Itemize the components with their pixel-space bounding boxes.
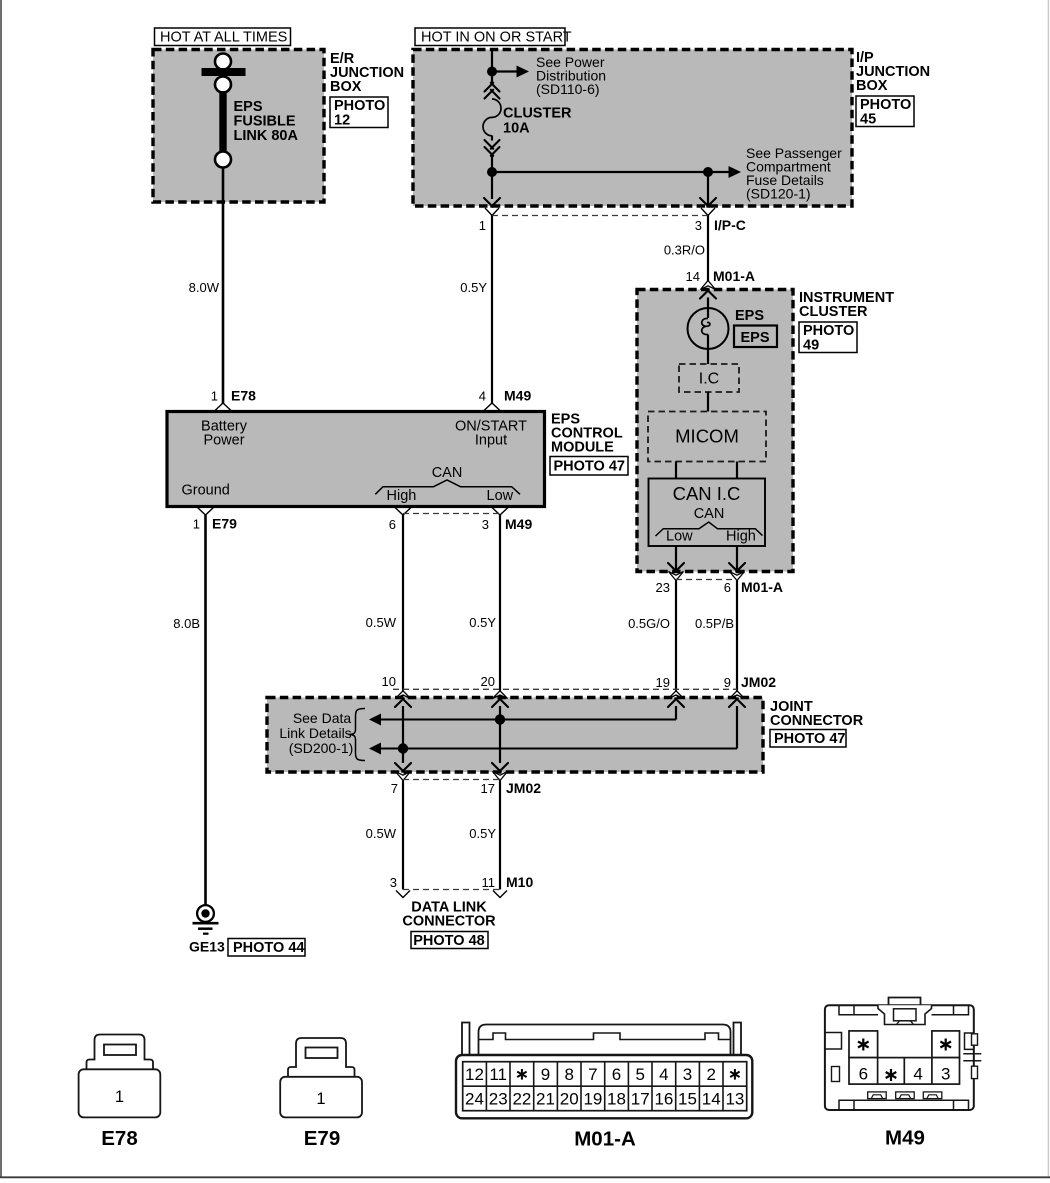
connector M01-A pin 14 [686, 268, 755, 284]
svg-text:BOX: BOX [330, 79, 362, 95]
svg-text:HOT IN ON OR START: HOT IN ON OR START [421, 30, 572, 46]
wire I.C to MICOM [707, 392, 709, 412]
wire through joint connector (pin20 to pin17) [499, 706, 501, 763]
EPS control module title [551, 412, 623, 456]
connector face E79 [280, 1038, 362, 1150]
svg-text:3: 3 [482, 517, 489, 532]
connector M10 pin 3 [390, 875, 410, 898]
page left border [0, 0, 2, 1177]
node power distribution tap [487, 67, 497, 77]
connector M10 dashed line [403, 889, 500, 891]
svg-text:17: 17 [631, 1090, 650, 1109]
svg-text:4: 4 [913, 1065, 922, 1084]
EPS control module box [167, 412, 545, 507]
node bus right [703, 167, 713, 177]
wire MICOM to CAN I.C right [736, 462, 738, 479]
data link connector title [402, 900, 496, 930]
svg-text:19: 19 [583, 1090, 602, 1109]
photo label PHOTO 12 [330, 97, 388, 129]
connector face M49 [825, 998, 981, 1150]
svg-text:23: 23 [656, 580, 670, 595]
svg-text:49: 49 [803, 338, 819, 354]
connector E79 pin 1 exit [193, 507, 237, 532]
node CAN low junction [495, 714, 505, 724]
JM02 pin 19 entry symbol [668, 691, 684, 707]
svg-text:M49: M49 [504, 388, 531, 404]
svg-text:0.5Y: 0.5Y [469, 826, 496, 841]
svg-text:M01-A: M01-A [574, 1128, 636, 1151]
svg-text:1: 1 [115, 1088, 124, 1106]
photo label PHOTO 47 joint [770, 730, 846, 748]
label HOT IN ON OR START [415, 28, 572, 46]
photo label PHOTO 44 [228, 939, 305, 957]
svg-text:21: 21 [536, 1090, 555, 1109]
svg-text:M01-A: M01-A [741, 579, 783, 595]
I/P junction box [413, 50, 852, 207]
svg-text:(SD110-6): (SD110-6) [536, 81, 600, 97]
wire 8.0W battery feed [189, 168, 223, 404]
svg-text:CAN: CAN [432, 465, 463, 481]
label HOT AT ALL TIMES [155, 28, 291, 46]
wire 0.3R/O [664, 216, 708, 282]
connector JM02 pin 19 [656, 675, 670, 690]
svg-text:8: 8 [564, 1065, 573, 1084]
svg-text:EPS: EPS [735, 308, 764, 324]
svg-text:10A: 10A [503, 121, 530, 137]
wire 0.5G/O [628, 581, 676, 691]
connector M01-A pin 23 [656, 563, 684, 595]
wire CAN I.C low out [675, 546, 677, 572]
wire 8.0B ground [173, 515, 205, 906]
svg-text:Input: Input [475, 433, 507, 449]
svg-text:CONNECTOR: CONNECTOR [770, 713, 864, 729]
connector I/P-C dashed line [492, 215, 708, 217]
svg-text:JM02: JM02 [741, 674, 776, 690]
svg-text:1: 1 [479, 218, 486, 233]
connector M01-A dashed line [676, 579, 737, 581]
svg-text:22: 22 [512, 1090, 531, 1109]
svg-text:18: 18 [607, 1090, 626, 1109]
page right border [1047, 0, 1049, 1177]
JM02 pin 7 exit symbol [391, 763, 411, 796]
svg-text:1: 1 [316, 1090, 325, 1108]
data link bus lower [369, 743, 737, 755]
svg-text:14: 14 [686, 269, 700, 284]
svg-text:CLUSTER: CLUSTER [503, 106, 572, 122]
svg-text:Low: Low [666, 529, 693, 545]
instrument cluster title [799, 290, 894, 320]
svg-text:Power: Power [203, 433, 244, 449]
connector JM02 pin 10 [382, 674, 396, 689]
wire to warning lamp [707, 298, 709, 319]
svg-text:0.5Y: 0.5Y [460, 280, 487, 295]
svg-text:11: 11 [482, 875, 496, 890]
module label ON/START Input [455, 419, 527, 449]
svg-text:13: 13 [725, 1090, 744, 1109]
connector M01-A pin 6 [724, 563, 783, 595]
photo label PHOTO 47 [550, 457, 628, 476]
module label Battery Power [201, 419, 248, 449]
JM02 pin 9 entry symbol [729, 691, 745, 707]
E/R junction box [153, 50, 324, 203]
photo label PHOTO 48 [411, 932, 488, 949]
svg-text:6: 6 [859, 1065, 868, 1084]
svg-text:12: 12 [465, 1065, 484, 1084]
wire pin9 into joint [736, 706, 738, 749]
svg-text:24: 24 [465, 1090, 484, 1109]
svg-text:7: 7 [588, 1065, 597, 1084]
wire 0.5Y CAN low upper [469, 515, 500, 691]
svg-text:6: 6 [724, 580, 731, 595]
connector I/P-C pin 3 [695, 198, 746, 233]
CAN I.C box [649, 479, 766, 547]
svg-text:0.5G/O: 0.5G/O [628, 616, 670, 631]
svg-text:1: 1 [193, 517, 200, 532]
connector M01-A pin 14 entry symbol [700, 281, 716, 299]
svg-text:I.C: I.C [699, 371, 719, 388]
svg-text:High: High [387, 488, 417, 504]
svg-text:PHOTO 47: PHOTO 47 [554, 459, 625, 475]
svg-text:M01-A: M01-A [713, 268, 755, 284]
svg-text:6: 6 [612, 1065, 621, 1084]
svg-text:Link Details: Link Details [279, 725, 351, 741]
connector JM02 dashed line top [393, 688, 737, 690]
connector E78 pin 1 entry [211, 388, 256, 412]
connector JM02 dashed line bottom [403, 779, 500, 781]
instrument cluster box [637, 290, 793, 572]
svg-text:E79: E79 [304, 1127, 340, 1150]
svg-text:3: 3 [695, 218, 702, 233]
wire 0.5W CAN high upper [366, 515, 403, 691]
joint connector title [770, 699, 864, 729]
svg-text:3: 3 [390, 875, 397, 890]
connector M10 pin 11 [482, 874, 534, 898]
connector JM02 pin 20 [481, 674, 495, 689]
wire bus horizontal [492, 171, 708, 173]
svg-text:3: 3 [683, 1065, 692, 1084]
svg-text:0.5W: 0.5W [366, 615, 397, 630]
svg-text:0.5P/B: 0.5P/B [695, 616, 734, 631]
ground GE13 [189, 905, 225, 954]
svg-text:3: 3 [941, 1065, 950, 1084]
connector M49 pin 6 exit [389, 507, 412, 532]
connector JM02 pin 9 [724, 674, 776, 690]
connector M49 pin 3 exit [482, 507, 533, 532]
MICOM box [648, 412, 766, 462]
svg-text:12: 12 [334, 113, 350, 129]
arrow to power distribution [492, 54, 606, 97]
svg-text:20: 20 [560, 1090, 579, 1109]
JM02 pin 17 exit symbol [481, 763, 542, 796]
svg-text:E78: E78 [231, 388, 256, 404]
svg-text:CLUSTER: CLUSTER [799, 304, 868, 320]
wire inside I/P box (fuse feed) [491, 50, 493, 84]
svg-text:16: 16 [654, 1090, 673, 1109]
svg-text:10: 10 [382, 674, 396, 689]
fusible link EPS FUSIBLE LINK 80A [202, 54, 299, 168]
connector M49 pin 4 entry [479, 388, 532, 412]
svg-text:8.0B: 8.0B [173, 616, 200, 631]
svg-text:PHOTO 47: PHOTO 47 [774, 731, 845, 747]
connector face E78 [79, 1035, 161, 1151]
svg-text:4: 4 [659, 1065, 668, 1084]
svg-text:45: 45 [860, 112, 876, 128]
connector M49 dashed line [403, 513, 500, 515]
wire through joint connector (pin10 to pin7) [402, 706, 404, 763]
svg-text:I/P-C: I/P-C [714, 217, 746, 233]
svg-text:0.3R/O: 0.3R/O [664, 243, 705, 258]
svg-text:High: High [726, 529, 756, 545]
wire 0.5W lower [366, 781, 403, 890]
wire CAN I.C high out [736, 546, 738, 572]
E/R junction box title [330, 51, 404, 95]
svg-text:1: 1 [211, 389, 218, 404]
svg-text:M49: M49 [505, 516, 532, 532]
svg-text:11: 11 [489, 1065, 507, 1084]
svg-text:MICOM: MICOM [675, 426, 739, 447]
wire 0.5P/B [695, 581, 737, 691]
page bottom border [0, 1176, 1050, 1178]
svg-text:8.0W: 8.0W [189, 280, 220, 295]
data link bus upper [369, 714, 676, 726]
I/P junction box title [856, 50, 930, 94]
svg-text:BOX: BOX [856, 78, 888, 94]
svg-text:0.5Y: 0.5Y [469, 615, 496, 630]
svg-text:5: 5 [635, 1065, 644, 1084]
JM02 pin 20 entry symbol [492, 691, 508, 707]
photo label PHOTO 45 [856, 96, 914, 128]
svg-text:See Data: See Data [293, 710, 352, 726]
svg-text:9: 9 [541, 1065, 550, 1084]
wire 0.5Y lower [469, 781, 500, 890]
node CAN high junction [398, 743, 408, 753]
wire bus to pin 3 [707, 172, 709, 206]
arrow to passenger compartment fuses [708, 145, 842, 202]
svg-text:9: 9 [724, 675, 731, 690]
joint connector box [267, 698, 763, 773]
svg-text:E79: E79 [212, 516, 237, 532]
see data link details note with brace [279, 709, 365, 761]
module label CAN with brace [375, 465, 520, 504]
svg-text:14: 14 [702, 1090, 721, 1109]
svg-text:CONNECTOR: CONNECTOR [402, 914, 496, 930]
svg-text:(SD120-1): (SD120-1) [746, 186, 811, 202]
svg-text:GE13: GE13 [189, 939, 225, 955]
photo label PHOTO 49 [799, 322, 857, 354]
wire fuse to bus [491, 155, 493, 199]
svg-text:PHOTO 48: PHOTO 48 [413, 933, 484, 949]
wire 0.5Y on/start [460, 216, 492, 404]
svg-text:M10: M10 [506, 874, 533, 890]
fuse CLUSTER 10A [483, 83, 572, 156]
svg-text:HOT AT ALL TIMES: HOT AT ALL TIMES [160, 30, 287, 46]
svg-text:7: 7 [391, 781, 398, 796]
wire MICOM to CAN I.C left [675, 462, 677, 479]
svg-text:4: 4 [479, 389, 486, 404]
node bus left [487, 167, 497, 177]
svg-text:CAN I.C: CAN I.C [673, 483, 741, 504]
svg-text:PHOTO 44: PHOTO 44 [233, 940, 304, 956]
svg-text:2: 2 [706, 1065, 715, 1084]
EPS indicator box [734, 326, 777, 348]
svg-text:JM02: JM02 [506, 780, 541, 796]
svg-text:CAN: CAN [694, 506, 725, 522]
svg-text:(SD200-1): (SD200-1) [289, 740, 354, 756]
svg-text:Ground: Ground [182, 483, 230, 499]
svg-text:Low: Low [487, 488, 514, 504]
svg-text:17: 17 [481, 781, 495, 796]
svg-text:15: 15 [678, 1090, 697, 1109]
connector I/P-C pin 1 [479, 198, 500, 233]
svg-text:6: 6 [389, 517, 396, 532]
svg-text:MODULE: MODULE [551, 440, 614, 456]
svg-text:20: 20 [481, 674, 495, 689]
svg-text:0.5W: 0.5W [366, 826, 397, 841]
svg-text:19: 19 [656, 675, 670, 690]
wire pin19 into joint [675, 706, 677, 720]
connector face M01-A [456, 1023, 752, 1151]
svg-text:E78: E78 [101, 1127, 137, 1150]
I.C box [679, 364, 739, 392]
svg-text:LINK 80A: LINK 80A [234, 128, 299, 144]
EPS warning lamp [688, 308, 765, 364]
svg-text:M49: M49 [885, 1127, 925, 1150]
svg-text:EPS: EPS [741, 330, 770, 346]
svg-text:23: 23 [489, 1090, 508, 1109]
JM02 pin 10 entry symbol [395, 691, 411, 707]
